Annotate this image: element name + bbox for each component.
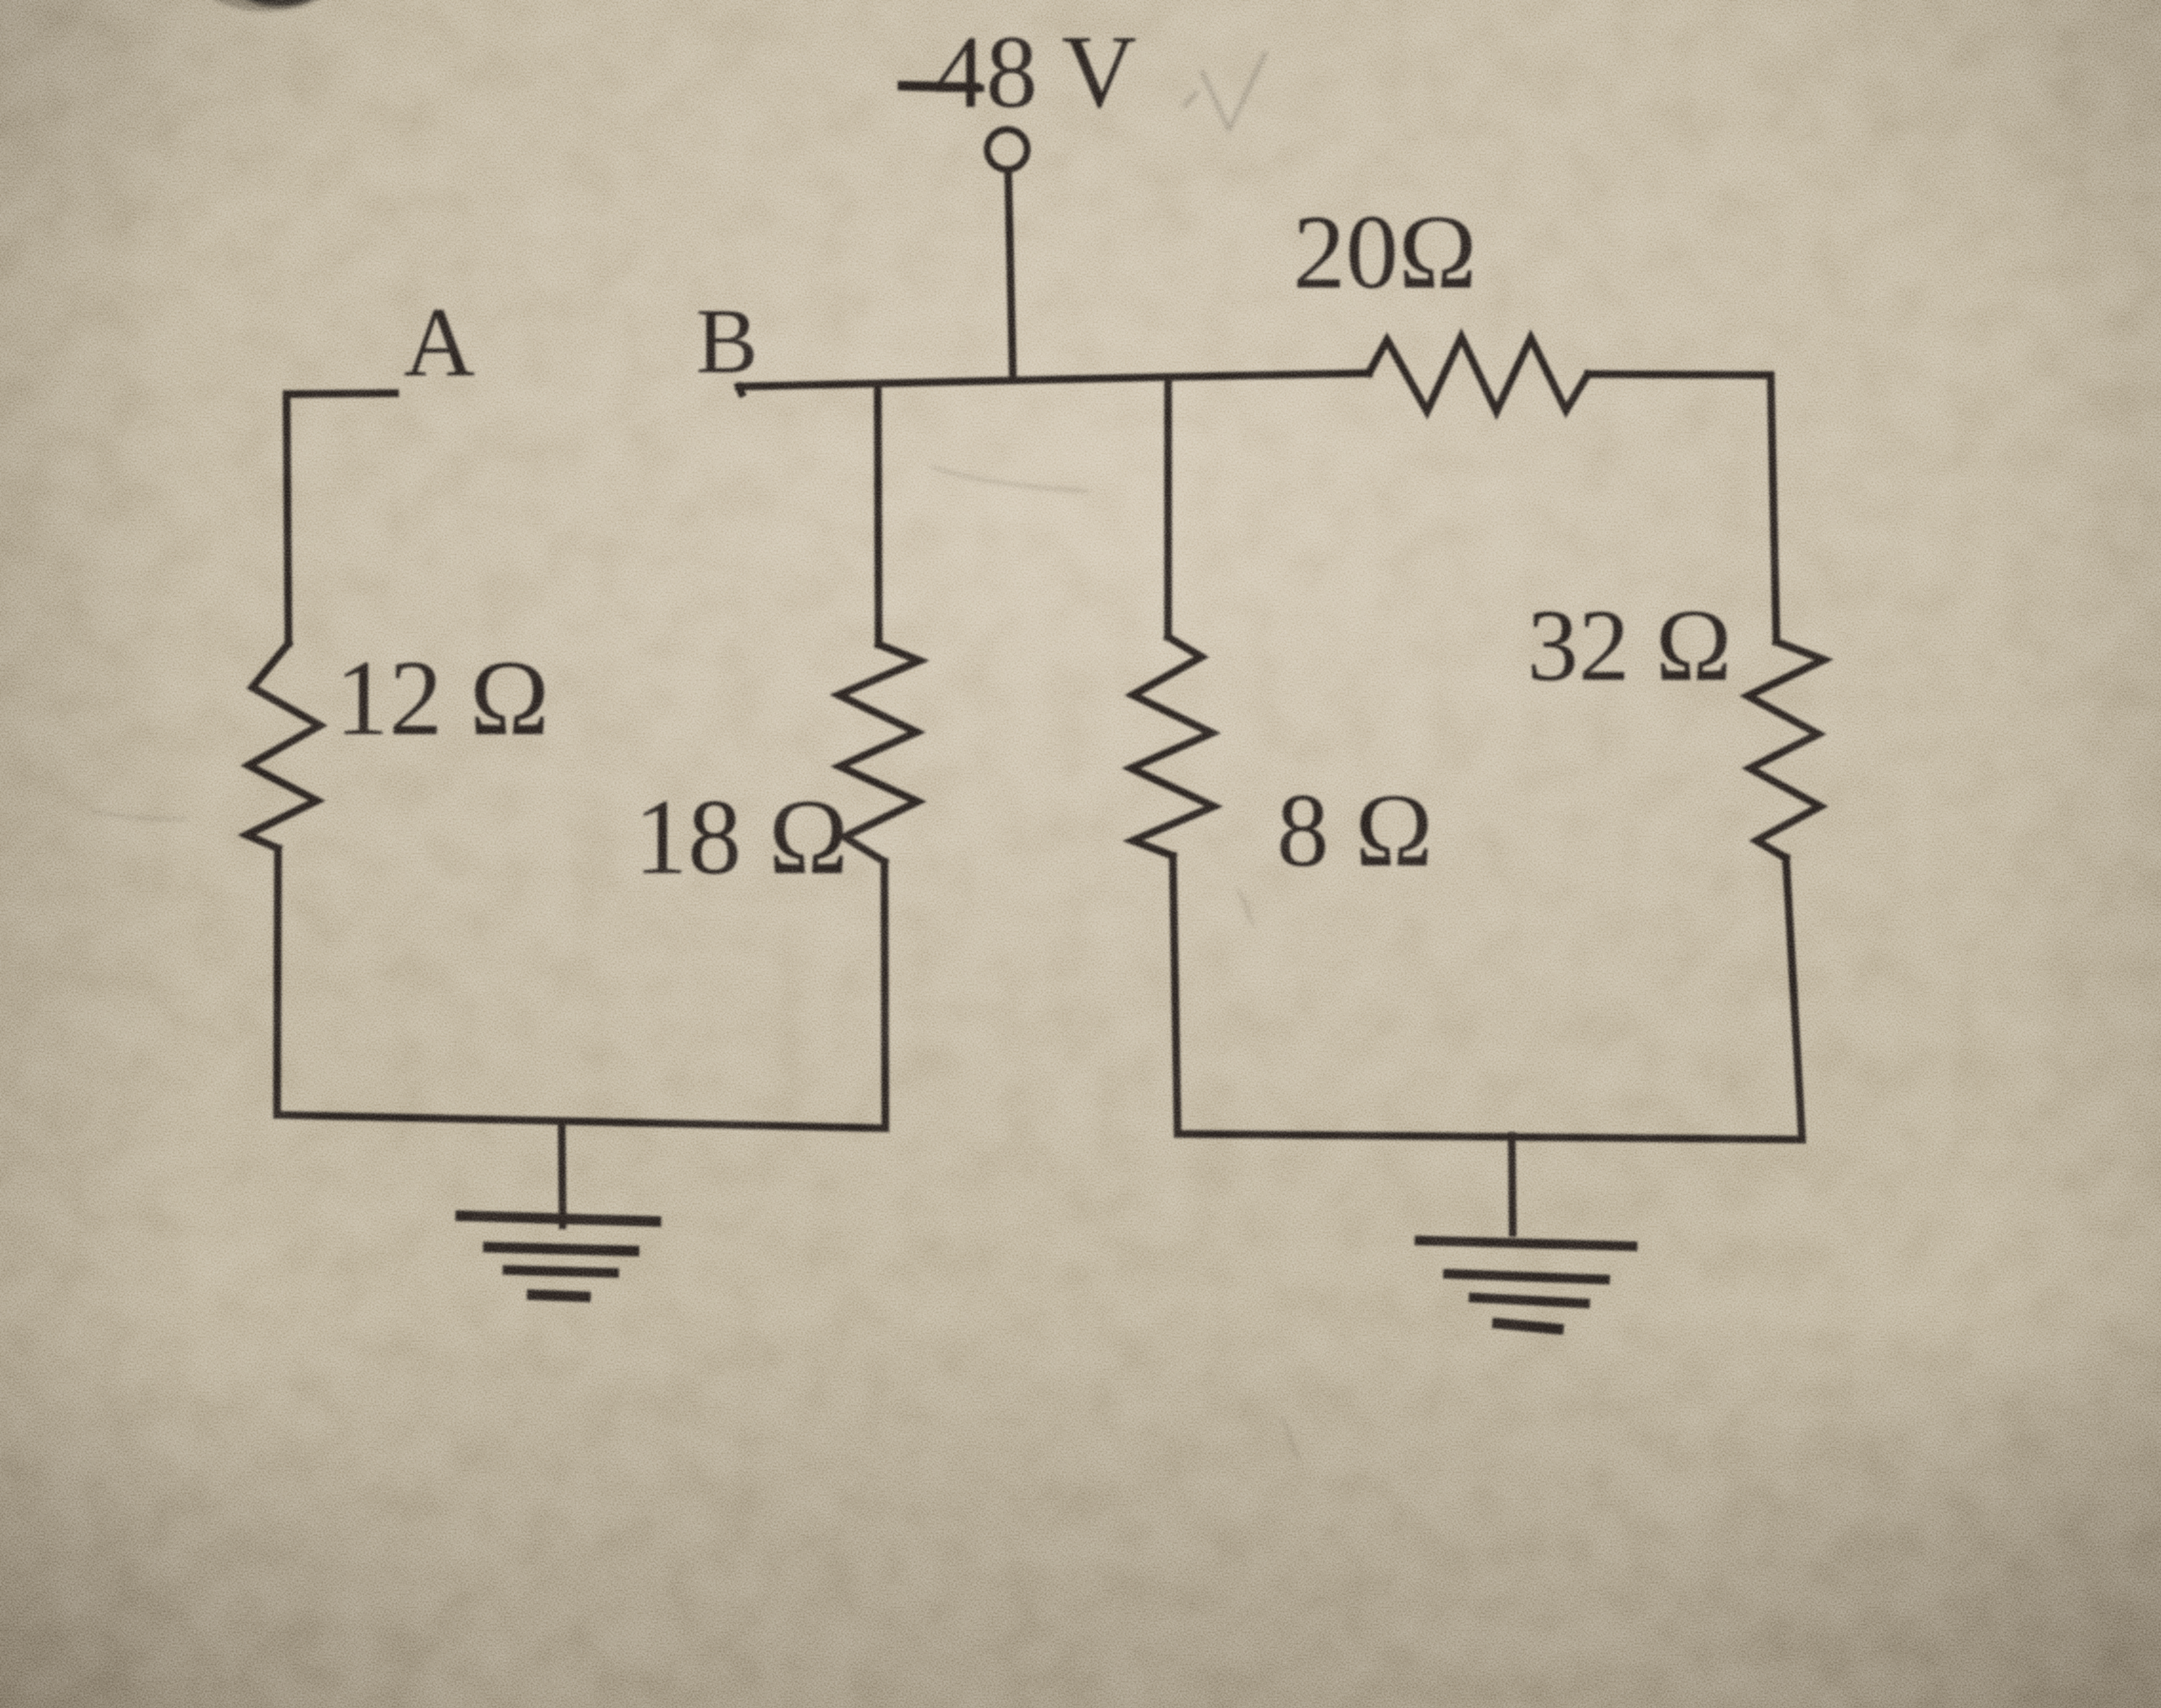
dark object clipped at top edge (198, 0, 335, 11)
wire left vertical A down (287, 394, 288, 644)
resistor R1 12 Ω zigzag (247, 644, 320, 848)
wire below 18 Ω (884, 862, 885, 1128)
ground G1 (461, 1122, 656, 1297)
wire bottom of right loop (1178, 1134, 1802, 1140)
wire below 12 Ω (277, 848, 278, 1115)
resistor R3 8 Ω zigzag (1131, 637, 1214, 856)
wire 8Ω branch from bus (1164, 377, 1172, 637)
resistor R5 32 Ω zigzag (1748, 642, 1824, 858)
resistor R2 18 Ω zigzag (839, 645, 920, 862)
wire node A stub (287, 393, 395, 394)
wire bottom of left loop (277, 1115, 885, 1128)
faint paper scratches (91, 467, 1300, 1459)
terminal -48V circle (987, 129, 1027, 169)
wire below 32 Ω (1786, 858, 1802, 1140)
wire 18Ω branch from bus (878, 385, 879, 645)
wire below 8 Ω (1173, 856, 1178, 1134)
wire right vertical down (1771, 375, 1776, 642)
wire -48V feed down to bus (1008, 170, 1013, 380)
wire 20Ω to right corner (1588, 374, 1771, 375)
resistor R4 20 Ω zigzag (1369, 337, 1588, 411)
faint pencil mark near top (1183, 51, 1266, 129)
wire top bus from node B to 20Ω (739, 373, 1369, 393)
ground G2 (1419, 1136, 1633, 1329)
